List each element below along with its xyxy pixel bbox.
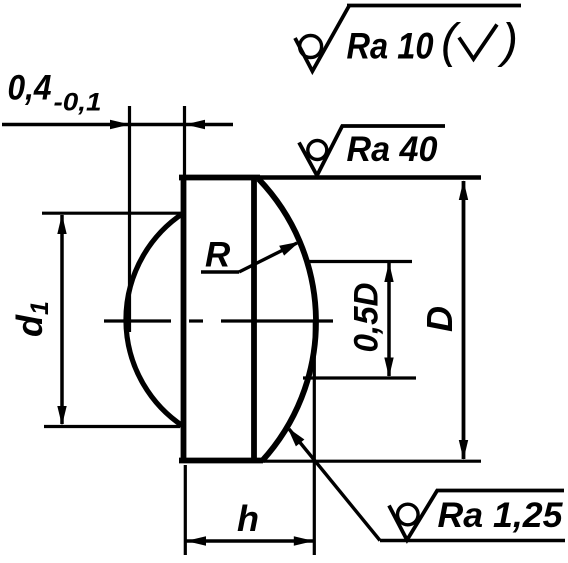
extension of bottom edge (for D dimension) bbox=[263, 460, 481, 463]
d1 dimension line bbox=[60, 215, 64, 424]
dimension line 0,4 bbox=[2, 123, 185, 127]
svg-text:h: h bbox=[237, 498, 259, 539]
R leader shelf bbox=[201, 270, 239, 273]
h dimension line bbox=[186, 539, 314, 543]
center line (axis) bbox=[104, 319, 171, 322]
Ra 1,25 leader shelf bbox=[380, 539, 565, 542]
spherical surface arc (right) bbox=[259, 179, 316, 461]
0,5D extension line top bbox=[306, 260, 412, 263]
svg-text:0,4: 0,4 bbox=[8, 69, 52, 108]
part body: top edge bbox=[179, 175, 260, 181]
D dimension line bbox=[462, 181, 466, 459]
part body: bottom edge bbox=[179, 458, 263, 464]
roughness symbol Ra 40 bbox=[299, 126, 343, 176]
svg-text:Ra 1,25: Ra 1,25 bbox=[438, 496, 564, 535]
arrow R leader bbox=[279, 242, 299, 256]
svg-text:Ra 10: Ra 10 bbox=[347, 26, 434, 67]
check glyph inside parentheses of Ra 10 bbox=[459, 25, 497, 60]
arrow 0,5D bottom bbox=[384, 358, 393, 378]
arrow h right bbox=[294, 536, 314, 545]
arrow d1 top bbox=[57, 214, 66, 234]
svg-text:R: R bbox=[205, 236, 231, 275]
part body: right edge of cylinder section bbox=[251, 176, 257, 463]
d1 extension line bottom bbox=[44, 425, 180, 428]
R leader line bbox=[239, 243, 297, 272]
extension line above flat face (0,4 right) bbox=[183, 106, 186, 176]
Ra 1,25 leader line bbox=[289, 429, 380, 541]
arrow 0,5D top bbox=[384, 262, 393, 282]
part body: flat face (left edge of rectangle) bbox=[181, 176, 187, 463]
h extension line left bbox=[184, 465, 187, 555]
0,5D extension line bottom bbox=[303, 376, 416, 379]
arrow D top bbox=[459, 180, 468, 200]
arrow h left bbox=[186, 536, 206, 545]
arrow Ra 1,25 leader bbox=[288, 428, 305, 447]
0,5D dimension line bbox=[387, 263, 391, 376]
extension line at sphere tangent (0,4 left) bbox=[128, 106, 131, 332]
roughness symbol Ra 1,25 bbox=[389, 490, 438, 540]
h extension line right bbox=[313, 322, 316, 555]
svg-text:Ra 40: Ra 40 bbox=[347, 130, 439, 169]
svg-text:D: D bbox=[419, 306, 460, 332]
d1 extension line top bbox=[42, 212, 182, 215]
svg-text:-0,1: -0,1 bbox=[54, 89, 102, 117]
arrow D bottom bbox=[459, 440, 468, 460]
svg-text:0,5D: 0,5D bbox=[348, 283, 386, 353]
roughness symbol Ra 10 (general) bbox=[295, 6, 349, 71]
extension of top edge (surface line for Ra 40 and D) bbox=[260, 175, 481, 180]
arrow 0,4 right bbox=[185, 120, 205, 129]
arrow 0,4 left bbox=[110, 120, 130, 129]
arrow d1 bottom bbox=[57, 406, 66, 426]
sphere continuation arc (left) bbox=[126, 213, 184, 427]
